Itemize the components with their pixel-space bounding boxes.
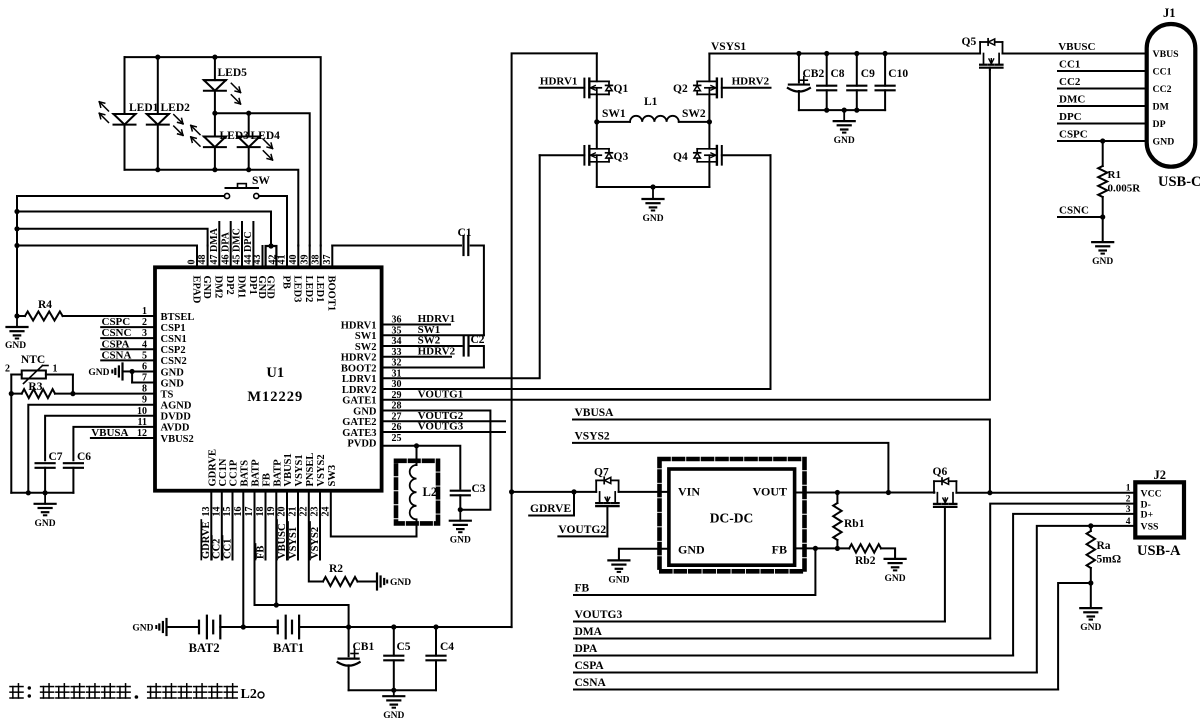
svg-text:VSS: VSS: [1141, 522, 1160, 533]
svg-text:GND: GND: [678, 543, 705, 557]
svg-text:GND: GND: [1153, 137, 1175, 148]
junction dot C3 bottom: [458, 507, 463, 512]
wire pins 6-7 GND tie: [132, 370, 155, 372]
transistor Q5: [979, 42, 981, 54]
svg-text:GND: GND: [834, 136, 855, 146]
sideways ground at pins 6-7: [123, 370, 133, 372]
wire VOUTG3 net to Q6 gate: [574, 621, 945, 623]
svg-text:VBUS: VBUS: [1153, 49, 1180, 60]
svg-text:17: 17: [244, 507, 255, 517]
wire DPA net: [574, 655, 1013, 657]
junction dot bus-228: [14, 226, 19, 231]
svg-text:VBUSC: VBUSC: [277, 523, 288, 559]
wire C2 to BOOT2: [471, 346, 484, 368]
svg-text:20: 20: [277, 507, 288, 517]
wire LED middle rail: [215, 113, 310, 245]
wire pin25 PVDD to C3: [382, 446, 461, 489]
wire pin27 GATE2 stub + label VOUTG2: [382, 420, 505, 422]
pin 42 stub box: [266, 246, 277, 267]
svg-text:CSN1: CSN1: [161, 334, 187, 345]
svg-text:BOOT2: BOOT2: [341, 363, 377, 374]
svg-text:CC2: CC2: [1059, 76, 1081, 88]
svg-text:BATP: BATP: [272, 459, 283, 487]
svg-text:J1: J1: [1163, 6, 1176, 20]
svg-text:VSYS2: VSYS2: [310, 527, 321, 559]
svg-text:45 DMC: 45 DMC: [232, 228, 243, 264]
junction dot bottom stem: [842, 108, 847, 113]
svg-text:LED2: LED2: [303, 276, 314, 303]
svg-text:BAT2: BAT2: [189, 641, 220, 655]
junction dot gnd rail C7: [43, 490, 48, 495]
junction dot FB riser: [813, 546, 818, 551]
svg-text:4: 4: [1126, 517, 1131, 527]
svg-text:LED2: LED2: [161, 102, 191, 114]
svg-text:18: 18: [255, 507, 266, 517]
wire CSNC stub: [1058, 216, 1103, 218]
svg-text:CSPC: CSPC: [1059, 129, 1088, 141]
svg-text:CC1: CC1: [1153, 67, 1172, 78]
resistor R3 zigzag: [11, 393, 21, 395]
svg-text:VOUTG1: VOUTG1: [418, 388, 464, 400]
battery BAT2: [198, 621, 200, 634]
transistor Q7: [595, 480, 597, 492]
wire Q5 gate down to VOUTG1: [989, 68, 991, 70]
note text chinese: [0, 0, 1, 1]
junction dot BATS: [241, 624, 246, 629]
wire LED top rail: [125, 57, 321, 245]
junction dot rail LED2: [155, 55, 160, 60]
svg-text:BATP: BATP: [251, 459, 262, 487]
svg-text:0.005R: 0.005R: [1108, 183, 1142, 195]
svg-text:CB1: CB1: [353, 641, 375, 653]
svg-text:Ra: Ra: [1097, 540, 1111, 552]
svg-text:TS: TS: [161, 389, 174, 400]
wire SW left to bus: [17, 196, 224, 316]
J1 pin CC2 wire: [1058, 88, 1147, 90]
svg-text:VOUTG3: VOUTG3: [575, 609, 623, 621]
capacitor C8: [826, 54, 828, 86]
svg-text:GND: GND: [201, 276, 212, 300]
svg-text:37: 37: [322, 255, 333, 265]
svg-text:DP: DP: [1153, 119, 1166, 130]
capacitor C10: [884, 54, 886, 86]
svg-text:VSYS1: VSYS1: [288, 527, 299, 559]
svg-text:DPA: DPA: [575, 643, 598, 655]
junction dot CB2: [796, 51, 801, 56]
svg-text:41: 41: [277, 255, 288, 265]
wire Q6 gate to VOUTG3: [944, 507, 946, 622]
svg-text:FB: FB: [262, 473, 273, 486]
svg-text:48: 48: [197, 255, 208, 265]
thermistor NTC R3 network: [73, 393, 155, 395]
junction dot Ra bottom: [1088, 580, 1093, 585]
svg-text:DM1: DM1: [235, 276, 246, 299]
node SW2: [707, 119, 712, 124]
svg-text:CC1N: CC1N: [218, 458, 229, 486]
svg-text:2: 2: [1126, 495, 1131, 505]
inductor L2 in dashed option box: [396, 461, 438, 524]
junction dot C5: [391, 624, 396, 629]
wire VSYS1 rail: [709, 53, 980, 55]
svg-text:47 DMA: 47 DMA: [209, 227, 220, 264]
transistor Q3: [596, 122, 598, 149]
ground below C3: [459, 510, 461, 521]
svg-text:C8: C8: [831, 68, 845, 80]
ground symbol left rail: [44, 493, 46, 504]
svg-text:C3: C3: [472, 483, 486, 495]
svg-text:DPC: DPC: [1059, 111, 1082, 123]
wire BAT1 to CB1 rail: [299, 626, 512, 628]
junction dot VBUSA-VCC: [987, 490, 992, 495]
svg-text:VCC: VCC: [1141, 488, 1162, 499]
junction dot R3 right: [70, 391, 75, 396]
svg-text:VSYS1: VSYS1: [711, 41, 746, 53]
wire Q7 to DC-DC VIN: [619, 491, 669, 493]
wire pin9 AGND down: [28, 405, 155, 493]
svg-text:D+: D+: [1141, 510, 1154, 521]
junction dot BATP pin19: [274, 602, 279, 607]
wire LED bottom rail: [125, 170, 299, 246]
resistor R1 0.005R: [1102, 141, 1104, 166]
J1 pin CC1 wire: [1058, 70, 1147, 72]
svg-text:3: 3: [1126, 505, 1131, 515]
capacitor C1: [462, 236, 464, 255]
svg-text:VBUSA: VBUSA: [91, 427, 128, 439]
svg-text:SW2: SW2: [682, 108, 706, 120]
svg-text:LED3: LED3: [292, 276, 303, 303]
ground below R4: [16, 316, 18, 327]
svg-text:M12229: M12229: [247, 389, 303, 405]
svg-text:Q2: Q2: [673, 83, 688, 95]
svg-text:SW3: SW3: [327, 465, 338, 487]
svg-text:15: 15: [222, 507, 233, 517]
LED LED2: [157, 57, 159, 114]
svg-text:CC2: CC2: [212, 539, 223, 559]
wire VIN row: [512, 491, 597, 493]
svg-text:19: 19: [266, 507, 277, 517]
svg-text:GDRVE: GDRVE: [530, 503, 571, 515]
wire pin2 CSP1 + net label CSPC: [101, 326, 155, 328]
svg-text:CSPA: CSPA: [575, 660, 605, 672]
svg-text:GND: GND: [383, 711, 404, 719]
wire DC-DC FB row: [795, 547, 850, 549]
wire J2 D- row: [990, 504, 1135, 639]
junction dot R3 left: [9, 391, 14, 396]
junction dot VSYS2-VOUT: [886, 490, 891, 495]
wire pin29 GATE1 VOUTG1 long wire: [382, 70, 990, 400]
wire Q6 to J2 VCC: [956, 492, 1135, 494]
svg-text:GDRVE: GDRVE: [201, 521, 212, 559]
junction dot bottom C9: [854, 108, 859, 113]
resistor R2: [323, 577, 358, 586]
svg-text:GND: GND: [88, 368, 109, 378]
svg-text:FB: FB: [255, 546, 266, 559]
svg-text:GDRVE: GDRVE: [207, 449, 218, 487]
capacitor C6: [64, 462, 83, 464]
svg-text:AGND: AGND: [161, 401, 192, 412]
capacitor C5: [393, 627, 395, 656]
ground below bridge: [652, 187, 654, 199]
svg-text:PVDD: PVDD: [347, 439, 377, 450]
svg-text:PB: PB: [280, 276, 291, 289]
svg-text:CSN2: CSN2: [161, 356, 187, 367]
wire pin36 HDRV1 stub + label: [382, 324, 450, 326]
svg-text:Q5: Q5: [962, 36, 977, 48]
svg-text:L2: L2: [423, 485, 438, 499]
node SW1: [594, 119, 599, 124]
svg-text:GND: GND: [450, 536, 471, 546]
svg-text:VOUT: VOUT: [753, 485, 787, 499]
net label HDRV2 at Q2 gate: [722, 87, 771, 89]
wire BATP horizontal: [255, 605, 349, 627]
junction dot gnd rail AGND: [26, 490, 31, 495]
junction dot bottom rail LED2: [155, 167, 160, 172]
LED LED3: [214, 113, 216, 136]
wire pin3 CSN1 + net label CSNC: [101, 337, 155, 339]
svg-text:LDRV2: LDRV2: [342, 385, 377, 396]
svg-text:FB: FB: [575, 583, 590, 595]
svg-text:SW1: SW1: [355, 331, 377, 342]
transistor Q2: [708, 54, 710, 82]
wire H-bridge ground rail: [597, 186, 710, 188]
capacitor CB1 polarized: [348, 627, 350, 656]
wire pin12 VBUS2 + net label VBUSA: [91, 437, 155, 439]
svg-text:R3: R3: [28, 381, 42, 393]
svg-text:VOUTG2: VOUTG2: [558, 524, 606, 536]
svg-text:DM: DM: [1153, 102, 1169, 113]
svg-text:Rb1: Rb1: [844, 518, 865, 530]
junction dot bottom rail LED3: [212, 167, 217, 172]
wire J2 VSS row: [1037, 526, 1136, 673]
svg-text:R2: R2: [329, 563, 343, 575]
svg-text:EPAD: EPAD: [190, 276, 201, 304]
wire pin11 AVDD down: [73, 427, 155, 460]
ground below caps: [843, 110, 845, 121]
junction dot Rb1 top: [835, 490, 840, 495]
junction dot C9: [854, 51, 859, 56]
svg-text:VBUS2: VBUS2: [161, 434, 194, 445]
junction dot bridge gnd: [650, 184, 655, 189]
svg-text:HDRV2: HDRV2: [341, 353, 377, 364]
wire pin30 LDRV2 to Q4 gate riser: [382, 155, 771, 389]
wire FB net long: [574, 548, 815, 595]
svg-text:25: 25: [392, 433, 402, 444]
wire Rb2 to ground: [881, 548, 895, 559]
U1 bottom pin stubs: [210, 491, 212, 560]
ground after Rb2: [894, 548, 896, 559]
svg-text:R4: R4: [38, 299, 52, 311]
svg-text:VBUS1: VBUS1: [283, 453, 294, 486]
resistor Rb1: [833, 503, 841, 540]
wire pin48 from bus: [17, 229, 208, 246]
wire Q3 gate lead: [540, 154, 585, 156]
svg-text:DMC: DMC: [1059, 94, 1085, 106]
svg-text:AVDD: AVDD: [161, 423, 190, 434]
svg-text:GND: GND: [1092, 257, 1113, 267]
J1 pin DM wire: [1058, 105, 1147, 107]
junction dot VIN-battery: [509, 489, 514, 494]
svg-text:38: 38: [310, 255, 321, 265]
svg-text:HDRV2: HDRV2: [732, 76, 770, 88]
U1 top pin stubs: [196, 246, 198, 268]
ground below DC-DC GND pin: [618, 549, 620, 561]
svg-text:BOOT1: BOOT1: [326, 276, 337, 312]
wire VBUSA net to J2 VCC: [573, 420, 990, 493]
svg-text:GATE2: GATE2: [342, 417, 376, 428]
svg-text:USB-C: USB-C: [1158, 174, 1200, 190]
capacitor C4: [435, 627, 437, 656]
svg-text:DP2: DP2: [224, 276, 235, 295]
svg-text:GND: GND: [642, 214, 663, 224]
svg-text:C7: C7: [49, 451, 63, 463]
svg-text:24: 24: [320, 507, 331, 517]
junction dot Rb1 bottom: [835, 546, 840, 551]
svg-text:GND: GND: [1080, 623, 1101, 633]
transistor Q4: [708, 122, 710, 149]
junction dot bottom C5: [391, 688, 396, 693]
svg-text:SW2: SW2: [355, 342, 377, 353]
svg-text:LED1: LED1: [314, 276, 325, 303]
svg-text:14: 14: [211, 507, 222, 517]
svg-text:LED1: LED1: [129, 102, 159, 114]
wire pin31 LDRV1 to Q3 gate riser: [382, 155, 540, 378]
wire CSNA net: [574, 689, 1058, 691]
capacitor C3: [451, 490, 470, 492]
junction dot pin42: [268, 243, 273, 248]
wire Q4 gate lead: [722, 154, 771, 156]
svg-text:CSP2: CSP2: [161, 345, 186, 356]
svg-text:VSYS2: VSYS2: [575, 430, 610, 442]
LED LED4: [248, 113, 250, 136]
svg-text:LED4: LED4: [251, 130, 281, 142]
svg-text:21: 21: [288, 507, 299, 517]
junction dot R1 top: [1100, 138, 1105, 143]
junction dot pin6: [130, 369, 135, 374]
svg-text:L2: L2: [241, 687, 257, 702]
svg-text:CC2: CC2: [1153, 84, 1172, 95]
svg-text:GATE1: GATE1: [342, 396, 376, 407]
wire bottom cap rail: [349, 689, 436, 691]
J1 pin GND wire: [1058, 140, 1147, 142]
wire pin42 from bus: [17, 212, 271, 247]
transistor Q6: [933, 481, 935, 493]
svg-text:LED5: LED5: [218, 67, 248, 79]
svg-text:GND: GND: [264, 276, 275, 300]
J1 pin DP wire: [1058, 123, 1147, 125]
DC-DC converter body: [669, 469, 795, 565]
svg-text:1: 1: [53, 364, 58, 375]
junction dot CB1: [346, 624, 351, 629]
svg-text:BAT1: BAT1: [273, 641, 304, 655]
svg-text:VBUSC: VBUSC: [1058, 41, 1095, 53]
wire pin4 CSP2 + net label CSPA: [101, 348, 155, 350]
svg-text:L1: L1: [644, 96, 658, 108]
svg-text:Q3: Q3: [614, 151, 629, 163]
svg-text:22: 22: [298, 507, 309, 517]
svg-text:1: 1: [1126, 484, 1131, 494]
junction dot bus-R4: [14, 313, 19, 318]
svg-text:Rb2: Rb2: [855, 555, 876, 567]
wire pin0 EPAD from bus: [17, 245, 197, 247]
wire SW right to pin41: [259, 196, 287, 246]
transistor Q1: [596, 53, 598, 81]
svg-text:GND: GND: [353, 406, 377, 417]
capacitor C7: [36, 462, 55, 464]
svg-text:DC-DC: DC-DC: [710, 511, 754, 526]
junction dot CSNC: [1100, 214, 1105, 219]
svg-text:46 DPA: 46 DPA: [220, 231, 231, 264]
ground below R1: [1102, 217, 1104, 242]
capacitor C9: [856, 54, 858, 86]
junction dot mid rail LED4: [246, 111, 251, 116]
svg-text:2: 2: [5, 364, 10, 375]
svg-text:HDRV1: HDRV1: [341, 320, 377, 331]
wire VIN battery vertical: [512, 53, 597, 627]
svg-text:GND: GND: [161, 367, 185, 378]
svg-text:CSNC: CSNC: [1059, 205, 1089, 217]
svg-text:USB-A: USB-A: [1137, 543, 1181, 559]
svg-text:C1: C1: [458, 227, 472, 239]
inductor L1: [597, 121, 630, 123]
wire NTC left down to gnd rail: [10, 394, 12, 493]
resistor R4: [17, 315, 25, 317]
wire pin28 GND to C3 bottom: [382, 411, 491, 510]
svg-text:C9: C9: [861, 68, 875, 80]
wire J2 D+ row: [1013, 514, 1135, 656]
svg-text:CC1: CC1: [1059, 59, 1080, 71]
svg-text:5mΩ: 5mΩ: [1097, 554, 1122, 566]
svg-text:SW: SW: [252, 175, 270, 187]
junction dot bottom rail LED4: [246, 167, 251, 172]
svg-text:HDRV1: HDRV1: [540, 76, 578, 88]
svg-text:GND: GND: [885, 574, 906, 584]
svg-text:Q7: Q7: [594, 467, 609, 479]
junction dot C4: [433, 624, 438, 629]
junction dot bottom C8: [824, 108, 829, 113]
svg-text:BATS: BATS: [239, 460, 250, 487]
wire C1 to SW1: [471, 246, 484, 336]
svg-text:CC1P: CC1P: [229, 459, 240, 486]
net label GDRVE with stub: [529, 515, 574, 517]
capacitor C2: [463, 337, 465, 356]
wire CSNA riser to Ra bottom: [1058, 583, 1091, 690]
svg-text:GND: GND: [35, 519, 56, 529]
svg-text:CSP1: CSP1: [161, 323, 186, 334]
svg-text:LDRV1: LDRV1: [342, 374, 377, 385]
svg-text:GND: GND: [132, 624, 153, 634]
resistor Ra 5mOhm: [1087, 531, 1095, 568]
net label VOUTG2 at Q7 gate: [606, 506, 608, 536]
junction dot C10: [883, 51, 888, 56]
svg-text:C6: C6: [77, 451, 91, 463]
svg-text:C10: C10: [888, 68, 908, 80]
wire VBUSC from Q5 to J1: [1003, 53, 1147, 55]
wire CSPA net: [574, 672, 1037, 674]
svg-text:U1: U1: [266, 365, 284, 381]
svg-text:GATE3: GATE3: [342, 428, 376, 439]
svg-text:0: 0: [187, 260, 198, 265]
wire BOOT1 to C1: [332, 245, 461, 247]
junction dot Ra top: [1088, 523, 1093, 528]
svg-text:VSYS1: VSYS1: [294, 454, 305, 486]
junction dot bus-211: [14, 209, 19, 214]
DC-DC converter dashed box: [660, 459, 805, 571]
wire VSYS2 net to VOUT: [573, 443, 888, 493]
wire pin5 CSN2 + net label CSNA: [101, 359, 155, 361]
svg-text:Q1: Q1: [614, 83, 629, 95]
NTC body: [10, 375, 12, 394]
junction dot mid rail LED3: [212, 111, 217, 116]
